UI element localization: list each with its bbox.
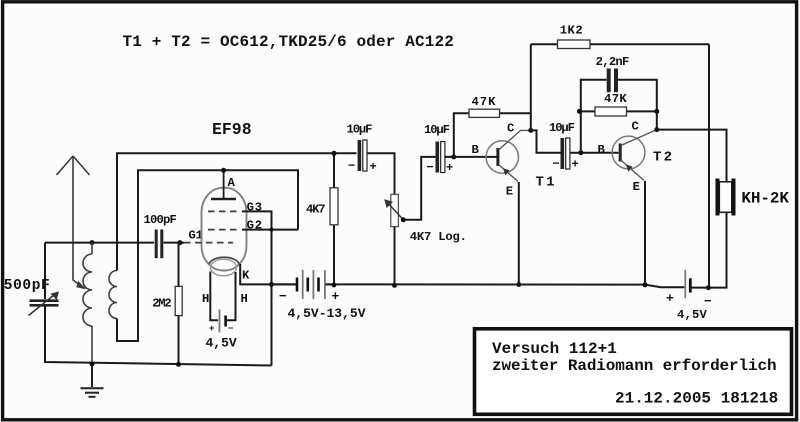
anode plate	[211, 198, 236, 200]
svg-text:B: B	[472, 143, 480, 157]
node ground junction	[90, 362, 95, 367]
wire T1 collector to 10uF3	[531, 130, 561, 152]
wire left vertical	[44, 243, 46, 299]
svg-text:+: +	[666, 291, 674, 306]
capacitor 10uF no3	[549, 121, 579, 172]
capacitor C 500pF variable	[4, 278, 59, 316]
inductor L1 primary winding	[83, 243, 92, 364]
svg-text:H: H	[202, 292, 209, 306]
capacitor 2,2nF	[596, 55, 629, 92]
svg-text:−: −	[228, 324, 233, 334]
svg-text:zweiter Radiomann erforderlich: zweiter Radiomann erforderlich	[492, 357, 776, 375]
wire 10uF2 to T1 base	[445, 156, 497, 158]
svg-text:+: +	[370, 160, 377, 174]
svg-text:E: E	[633, 180, 640, 194]
node coil top junction	[90, 240, 95, 245]
svg-text:Versuch 112+1: Versuch 112+1	[492, 340, 617, 358]
wire T1 collector to 1K2	[530, 44, 532, 130]
node T1 collector junction	[528, 128, 533, 133]
node battery3 junction	[706, 285, 711, 290]
grid G3 dashed	[208, 210, 240, 212]
node T2 collector junction	[654, 127, 659, 132]
wire base junction to 2.2nF	[581, 80, 607, 153]
svg-text:21.12.2005 181218: 21.12.2005 181218	[615, 390, 778, 408]
svg-text:−: −	[348, 159, 355, 173]
svg-text:10µF: 10µF	[347, 123, 373, 137]
svg-text:+: +	[332, 289, 340, 304]
wire 10uF1 to pot top	[367, 153, 395, 194]
svg-text:4,5V: 4,5V	[206, 336, 237, 351]
resistor 1K2	[531, 24, 709, 49]
wire main tuning bus	[45, 242, 154, 244]
svg-text:−: −	[704, 294, 712, 309]
node G1 junction	[178, 240, 183, 245]
potentiometer 4K7 Log	[384, 194, 467, 285]
svg-text:2M2: 2M2	[152, 297, 171, 311]
svg-text:C: C	[507, 122, 514, 136]
wire L2 top to anode bus	[117, 153, 357, 270]
svg-text:T1: T1	[536, 174, 557, 190]
wire T1 emitter down	[518, 182, 520, 285]
node pot wiper junction	[401, 217, 406, 222]
cathode lead K	[240, 264, 296, 284]
node 47K2 right junction	[654, 109, 659, 114]
svg-text:4,5V-13,5V: 4,5V-13,5V	[288, 306, 366, 321]
wire 100pF to G1	[164, 242, 185, 244]
node 2M2 bottom junction	[176, 362, 181, 367]
svg-text:A: A	[228, 176, 236, 190]
heater leads H H	[210, 272, 218, 321]
transistor Q T2	[598, 119, 675, 194]
capacitor 100pF	[144, 213, 177, 258]
transistor Q T1	[472, 122, 557, 199]
node pot bottom junction	[392, 283, 397, 288]
svg-text:C: C	[632, 119, 639, 133]
wire bottom supply bus	[326, 284, 685, 287]
resistor 47K no2	[579, 92, 656, 116]
svg-text:4,5V: 4,5V	[677, 308, 708, 322]
svg-text:100pF: 100pF	[144, 213, 177, 227]
wire wiper to 10uF2	[403, 157, 436, 220]
capacitor 10uF no2	[424, 123, 453, 175]
svg-text:K: K	[242, 269, 250, 283]
svg-text:H: H	[241, 292, 248, 306]
svg-text:1K2: 1K2	[560, 24, 583, 38]
svg-text:47K: 47K	[472, 95, 497, 109]
svg-text:+: +	[446, 161, 453, 175]
svg-text:4K7: 4K7	[306, 203, 325, 217]
svg-text:EF98: EF98	[212, 120, 252, 139]
resistor 47K no1	[454, 95, 531, 157]
wire 1K2 right down	[708, 44, 710, 287]
antenna	[57, 156, 90, 289]
battery 4,5V right	[666, 270, 712, 322]
wire 10uF3 to T2 base	[570, 152, 619, 154]
node cathode junction	[269, 282, 274, 287]
capacitor 10uF no1	[347, 123, 377, 175]
ground	[81, 364, 104, 397]
tube envelope	[202, 188, 247, 271]
resistor 4K7	[306, 153, 338, 286]
info box	[475, 329, 792, 415]
node T2 emitter bottom	[643, 282, 648, 287]
svg-text:T2: T2	[653, 150, 674, 166]
svg-text:−: −	[427, 161, 434, 175]
node G2-G3 crossing	[270, 228, 274, 232]
wire T2 collector to phones	[657, 130, 727, 181]
battery 4,5V-13,5V	[272, 270, 366, 321]
headphone KH-2K	[718, 179, 790, 216]
svg-text:10µF: 10µF	[549, 121, 575, 135]
svg-text:T1 + T2 = OC612,TKD25/6 oder A: T1 + T2 = OC612,TKD25/6 oder AC122	[123, 33, 455, 51]
svg-text:500pF: 500pF	[4, 278, 51, 294]
svg-text:10µF: 10µF	[424, 123, 450, 137]
svg-text:B: B	[598, 143, 606, 157]
node anode junction	[221, 168, 226, 173]
wire T2 emitter down	[644, 181, 646, 285]
node T2 base junction	[578, 150, 583, 155]
svg-text:47K: 47K	[604, 92, 627, 106]
svg-text:2,2nF: 2,2nF	[596, 55, 629, 69]
wire L2 bottom to G2 net	[117, 170, 298, 341]
anode lead	[223, 170, 225, 199]
inductor L2 feedback winding	[109, 271, 117, 319]
battery heater 4,5V	[206, 310, 237, 351]
wire G3 to cathode line	[242, 211, 272, 365]
svg-text:KH-2K: KH-2K	[741, 190, 789, 208]
resistor 2M2	[152, 243, 182, 365]
svg-text:E: E	[506, 185, 513, 199]
cathode arc	[209, 257, 239, 264]
svg-text:G1: G1	[189, 229, 203, 243]
grid G1 dashed	[184, 242, 233, 244]
svg-text:−: −	[279, 289, 287, 304]
node T1 emitter bottom	[516, 282, 521, 287]
node 47K1 base junction	[451, 154, 456, 159]
wire phones bottom	[708, 213, 726, 288]
wire 2.2nF to collector net	[618, 80, 657, 130]
node 47K2 left junction	[577, 109, 582, 114]
svg-text:−: −	[553, 157, 560, 171]
node 4K7 top junction	[332, 151, 337, 156]
svg-text:+: +	[209, 324, 214, 334]
wire G2 to feedback	[242, 229, 298, 231]
svg-text:4K7 Log.: 4K7 Log.	[410, 230, 467, 244]
svg-text:+: +	[572, 158, 579, 172]
grid G2 dashed	[208, 229, 240, 231]
node battery2 right junction	[332, 283, 337, 288]
